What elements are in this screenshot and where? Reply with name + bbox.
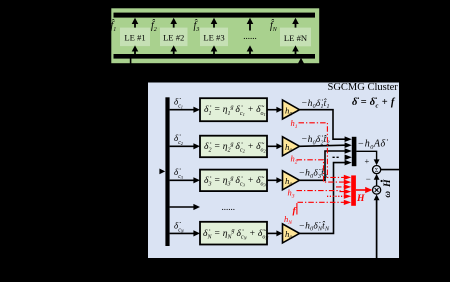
SGCMG Cluster box: [147, 82, 400, 260]
product circle: [373, 186, 381, 194]
equation box 4 (N): [200, 222, 267, 245]
LE #3 box: [200, 28, 228, 46]
svg-text:δ̇3 = η3g δ̇c3 + δ̃o3: δ̇3 = η3g δ̇c3 + δ̃o3: [204, 175, 267, 188]
wire from SGCMG up to bottom bar with up arrowhead: [300, 64, 302, 83]
merge bar arrowheads: [345, 136, 352, 165]
LE #1 box: [120, 28, 150, 46]
svg-text:SGCMG Cluster: SGCMG Cluster: [328, 82, 399, 93]
LE #2 box: [160, 28, 188, 46]
svg-text:−: −: [366, 174, 371, 184]
gain triangle h0 #2: [283, 137, 300, 156]
equation box 3: [200, 170, 267, 192]
svg-text:−h0δ̇3t̂3: −h0δ̇3t̂3: [299, 167, 328, 180]
svg-text:Σ: Σ: [375, 168, 379, 174]
arrows equation boxes to gain triangles: [267, 110, 278, 234]
svg-text:LE #2: LE #2: [163, 33, 184, 43]
svg-text:δ̇2 = η2g δ̇c2 + δ̃o2: δ̇2 = η2g δ̇c2 + δ̃o2: [204, 141, 267, 154]
gain triangle h0 #3: [283, 171, 300, 190]
left bus bar: [165, 97, 169, 246]
merge bar: [352, 137, 357, 166]
red dash-dot h3 to H bar: [297, 191, 345, 192]
sum circle: [373, 166, 381, 174]
svg-text:ω: ω: [382, 191, 392, 198]
wire product to sum: [376, 179, 378, 186]
red dash-dot hN to H bar: [298, 201, 345, 203]
red dash-dot h2 to H bar: [297, 160, 345, 182]
svg-text:......: ......: [243, 31, 257, 41]
output wire from sum: [381, 169, 400, 171]
svg-text:−h0δ̇1t̂1: −h0δ̇1t̂1: [301, 97, 330, 110]
gain triangle h0 #1: [283, 100, 300, 119]
svg-text:H: H: [356, 193, 365, 204]
wire triangle3 to merge bar: [300, 151, 346, 180]
red merge arrowheads: [344, 175, 351, 205]
svg-text:LE #N: LE #N: [284, 33, 308, 43]
svg-text:LE #3: LE #3: [203, 33, 224, 43]
red dash-dot h1 to H bar: [299, 123, 345, 178]
ellipsis dashes into merge bar: [333, 156, 341, 158]
gain triangle h0 #N: [283, 224, 300, 243]
red H bar: [351, 175, 356, 205]
wire triangle2 to merge bar: [300, 145, 346, 146]
equation box 1: [200, 98, 267, 121]
top bus bar: [114, 13, 316, 18]
wire triangle1 to merge bar: [300, 110, 346, 140]
wire merge bar to sum circle: [356, 151, 376, 161]
svg-text:−h0δ̇2t̂2: −h0δ̇2t̂2: [301, 133, 330, 146]
arrows bottom bar to LE boxes: [135, 51, 296, 55]
svg-text:LE #1: LE #1: [124, 33, 145, 43]
red short dash row3: [336, 186, 345, 188]
red tick from f label up to hN line: [296, 203, 298, 215]
feedback wire from bottom into product: [376, 200, 378, 259]
input arrow into left bus bar: [159, 169, 165, 175]
equation box 2: [200, 136, 267, 158]
wire from bottom bar down to SGCMG input (mostly hidden on black): [131, 57, 160, 171]
svg-text:+: +: [365, 156, 370, 166]
arrows LE boxes to top bar: [135, 23, 296, 31]
red wire H bar to product circle: [356, 189, 367, 191]
wire triangleN to merge bar: [300, 163, 346, 234]
bottom bus bar: [114, 54, 316, 59]
svg-text:......: ......: [222, 202, 236, 212]
svg-text:H: H: [382, 179, 393, 188]
svg-text:δ̇1 = η1g δ̇c1 + δ̃o1: δ̇1 = η1g δ̇c1 + δ̃o1: [204, 104, 266, 117]
svg-text:δ̇ = δ̇c + f: δ̇ = δ̇c + f: [352, 97, 396, 110]
LE estimator cluster box: [111, 8, 321, 65]
LE #N box: [280, 28, 311, 47]
red dots row5: [327, 195, 344, 197]
arrows bus bar to equation boxes: [170, 110, 195, 234]
svg-text:δ̇N = ηNg δ̇cN + δ̃oN: δ̇N = ηNg δ̇cN + δ̃oN: [203, 228, 269, 241]
